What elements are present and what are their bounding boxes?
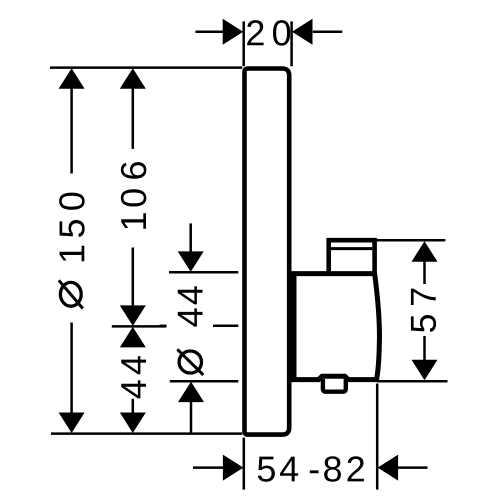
bottom small tab [323, 379, 346, 392]
label D44 [178, 308, 203, 326]
top button tab [329, 240, 375, 273]
dimension D150: bottom shaft [70, 323, 73, 415]
handle knob body [294, 274, 379, 380]
dimension 54-82: right extension line [376, 384, 379, 490]
dimension D150: top shaft [70, 88, 73, 174]
dimension 44 left: top arrowhead (bowtie lower) [120, 327, 146, 348]
dimension 57: bottom extension line [378, 380, 448, 383]
label 44 left [121, 380, 146, 398]
dimension D44: bottom arrowhead [178, 382, 204, 403]
dimension D150: top arrowhead [59, 68, 85, 89]
dimension 57: bottom shaft [423, 336, 426, 360]
dimension D44: top tick [169, 271, 238, 274]
dimension D150: bottom arrowhead [59, 413, 85, 434]
dimension 57: top shaft [423, 262, 426, 285]
dimension 54-82: right shaft [398, 466, 428, 469]
dimension 54-82: left shaft [193, 466, 223, 469]
dimension 57: bottom arrowhead [412, 360, 438, 381]
top tab inner line [331, 247, 372, 250]
dimension 106: top arrowhead [120, 68, 146, 89]
extension line top-left (plate top) [50, 66, 242, 69]
dimension 20: right extension line [290, 21, 293, 66]
dimension 54-82: right arrowhead [378, 455, 399, 481]
dimension 106: bottom arrowhead (bowtie upper) [120, 305, 146, 326]
label 20 [247, 20, 290, 45]
label D150 [60, 246, 85, 262]
dimension 20: left extension line [242, 21, 245, 66]
plate (wall plate, side view) [245, 69, 290, 435]
dimension 106: bottom shaft [132, 248, 135, 306]
dimension 54-82: left arrowhead [223, 455, 244, 481]
dimension 20: right arrowhead [292, 19, 313, 45]
tick at 106/44 boundary [112, 325, 167, 328]
dimension D44: top arrowhead [178, 251, 204, 272]
label 57 [411, 315, 436, 332]
dimension 44 left: bottom arrowhead [120, 413, 146, 434]
label 106 [121, 213, 146, 229]
dimension 44 left: bottom shaft [132, 399, 135, 413]
dimension 57: top extension line [377, 239, 446, 242]
dimension 57: top arrowhead [412, 241, 438, 262]
dimension D44: bottom tick [170, 380, 239, 383]
dimension D44: bottom shaft [190, 402, 193, 433]
dimension 54-82: left extension line [243, 438, 246, 490]
extension line bottom-left (plate bottom) [51, 432, 242, 435]
dimension D44: top shaft [189, 223, 192, 252]
centerline dash right [213, 325, 238, 328]
dimension 20: left shaft [196, 31, 224, 34]
centerline dash left [160, 325, 167, 328]
dimension 106: top shaft [132, 88, 135, 149]
dimension 20: right shaft [313, 31, 343, 34]
dimension 20: left arrowhead [223, 19, 244, 45]
label 54-82 [258, 456, 364, 481]
